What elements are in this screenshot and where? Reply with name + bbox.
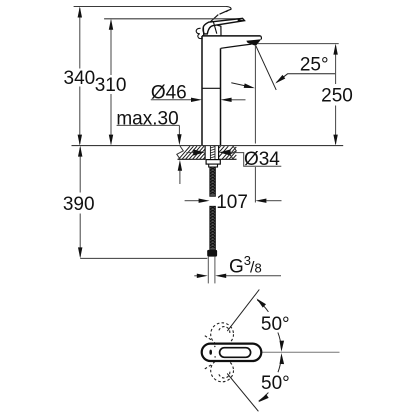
spout tip extension line (254, 46, 256, 144)
spout tip curve (260, 36, 263, 40)
top view: dashed segment lower (205, 364, 213, 369)
svg-text:max.30: max.30 (116, 108, 178, 129)
50 degree line lower (227, 374, 258, 412)
25 degree leader arrowhead (275, 75, 285, 84)
dimension 390 arrow up (78, 146, 82, 157)
deck bottom right (219, 158, 237, 160)
svg-text:Ø46: Ø46 (151, 83, 187, 104)
svg-text:340: 340 (64, 68, 96, 89)
countertop reference line (72, 145, 344, 147)
cartridge cap (203, 25, 221, 36)
top view: handle outer pill (202, 344, 262, 361)
spout underside (221, 44, 252, 48)
25 degree second arrow line (231, 83, 245, 86)
dimension Ø46 right arrow (231, 99, 246, 101)
reference line 310 level (104, 18, 239, 20)
deck bottom left (178, 158, 206, 160)
max.30 lower arrow (179, 169, 181, 185)
50 degree arc lower arrowhead at centerline (280, 353, 285, 364)
50 degree line upper (227, 290, 259, 332)
svg-text:310: 310 (95, 75, 127, 96)
top view: dashed swung handle upper inner (219, 327, 230, 335)
deck hatch right (219, 146, 237, 159)
dimension 250 line (335, 46, 337, 84)
deck hatch left (179, 146, 205, 159)
flexible hose upper segment (210, 167, 216, 196)
25 degree slope line (256, 46, 276, 90)
dimension 340 arrow up (78, 7, 82, 18)
deck break mark right (230, 146, 237, 159)
50 degree arc upper arrowhead at line (256, 298, 266, 307)
50 degree arc upper arrowhead at centerline (280, 341, 285, 352)
svg-text:50°: 50° (261, 314, 290, 335)
top view: lever inner outline (220, 348, 251, 358)
50 degree arc upper (two segments with text gap) (257, 300, 281, 348)
hose end reference line (80, 257, 207, 259)
lever tip dark fill (238, 19, 245, 22)
raised lever tip hook (226, 7, 231, 12)
dimension 107 left arrow (185, 200, 199, 202)
mounting nut upper (206, 160, 220, 165)
svg-text:250: 250 (321, 86, 353, 107)
aerator wedge (246, 39, 261, 46)
faucet column left edge (201, 36, 203, 146)
lever front curl (196, 28, 202, 38)
dimension G3/8 right arrow + underline (226, 275, 281, 277)
dimension Ø34 left arrow (187, 152, 195, 154)
dimension Ø34 leader (237, 153, 282, 167)
svg-text:390: 390 (63, 194, 95, 215)
svg-text:50°: 50° (261, 373, 290, 394)
lever handle (side view) (203, 18, 244, 34)
reference line 340 level (74, 6, 227, 8)
dimension 250 arrow up (333, 44, 337, 55)
25 degree leader (277, 74, 336, 83)
top view: indicator dot (209, 350, 212, 355)
threaded rod in shank (210, 146, 215, 160)
dimension Ø34 right arrow (230, 152, 237, 154)
dimension 340 arrow down (78, 135, 82, 146)
top view: small dot lower (214, 356, 216, 358)
hose ferrule (207, 250, 217, 257)
dimension 390 arrow down (78, 247, 82, 258)
raised lever slash 1 (209, 15, 218, 23)
mounting nut lower (209, 164, 218, 167)
max.30 underline (117, 124, 180, 126)
50 degree arc lower arrowhead at line (258, 394, 268, 402)
deck break mark left (177, 146, 184, 159)
connection pipe (207, 257, 209, 284)
top view: dashed swung handle lower inner (219, 370, 230, 378)
flexible hose lower segment (210, 206, 216, 250)
dimension 250 arrow down (333, 135, 337, 146)
25 degree second arrowhead (244, 83, 255, 88)
dimension 310 arrow down (109, 135, 113, 146)
max.30 upper arrow (178, 125, 180, 136)
dimension 340 line (79, 8, 81, 68)
top view: dashed swung handle upper outer (211, 323, 234, 346)
top view: small dot upper (214, 346, 216, 348)
top view: centerline (252, 351, 340, 353)
dimension 310 arrow up (109, 19, 113, 30)
svg-text:Ø34: Ø34 (244, 149, 280, 170)
lever seam (213, 22, 216, 34)
mounting shank left wall (204, 146, 206, 160)
top view: dashed segment upper (205, 336, 213, 341)
faucet column right edge (220, 48, 222, 145)
dimension 310 line (110, 21, 112, 76)
dimension 250 top extension (258, 43, 339, 45)
50 degree arc lower (two segments with text gap) (259, 357, 282, 401)
top view: dashed swung handle lower outer (211, 359, 234, 382)
svg-text:107: 107 (216, 192, 248, 213)
column joint line (202, 87, 221, 89)
raised lever slash 2 (220, 10, 229, 14)
svg-text:25°: 25° (300, 55, 329, 76)
dimension 390 line (79, 148, 81, 193)
mounting shank right wall (218, 146, 220, 160)
dimension Ø46 left arrow (151, 99, 194, 101)
dimension 107 right arrow (267, 200, 282, 202)
spout body top (202, 35, 261, 37)
dimension G3/8 left arrow (194, 275, 199, 277)
